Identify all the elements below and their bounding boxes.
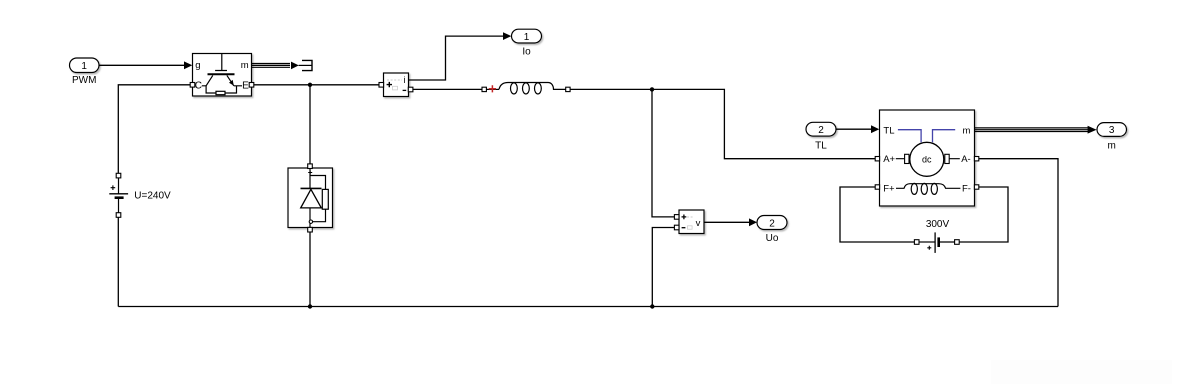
wire diode to top rail (309, 85, 311, 164)
svg-text:m: m (1108, 141, 1116, 152)
svg-text:g: g (195, 60, 200, 71)
terminator (302, 60, 312, 70)
current sensor block (384, 73, 409, 97)
machine F- port (974, 185, 978, 189)
diode top port (308, 164, 313, 169)
wire tap to voltmeter + (652, 89, 674, 216)
DC machine block (880, 110, 975, 206)
output port 2 (757, 216, 787, 230)
svg-text:TL: TL (815, 140, 827, 151)
machine blue signal lines (898, 130, 955, 143)
IGBT symbol (202, 54, 242, 95)
vector wire IGBT m to terminator (252, 62, 312, 70)
svg-text:dc: dc (922, 154, 932, 164)
wire IGBT E to current sensor (254, 84, 379, 86)
wire TL to machine (836, 125, 879, 133)
output port 1 (512, 29, 542, 43)
wire voltmeter to outport Uo (704, 218, 757, 226)
svg-text:1: 1 (524, 32, 530, 43)
svg-text:1: 1 (81, 61, 87, 72)
machine A+ port (875, 157, 879, 161)
svg-text:Io: Io (522, 46, 531, 57)
junction diode bottom (308, 304, 312, 308)
input port 1 (70, 58, 100, 73)
wire IGBT C to DC source (118, 85, 190, 173)
wire inductor to machine A+ (570, 89, 875, 158)
IGBT E port (249, 83, 254, 88)
machine A- port (974, 157, 978, 161)
diode block (288, 168, 333, 228)
watermark area bottom right (991, 360, 1172, 384)
bottom bus wire (118, 306, 1058, 308)
wire machine F+ to field source (840, 187, 914, 242)
svg-text:Uo: Uo (766, 233, 779, 244)
output port 3 (1097, 123, 1127, 137)
svg-text:F+: F+ (883, 183, 895, 194)
wire current sensor to inductor (413, 88, 482, 90)
svg-text:C: C (195, 81, 202, 92)
input port 2 (806, 122, 836, 136)
wire field source to machine F- (959, 187, 1008, 242)
svg-text:v: v (696, 218, 701, 229)
current sensor + port (379, 83, 384, 88)
vector wire machine m to outport 3 (975, 126, 1097, 134)
wire current sensor i to outport Io (409, 32, 512, 80)
machine field winding (896, 183, 960, 194)
voltage sensor - port (674, 225, 679, 230)
wire PWM to IGBT gate (99, 61, 192, 69)
svg-text:TL: TL (883, 125, 894, 136)
svg-text:m: m (241, 60, 249, 71)
IGBT C port (190, 83, 195, 88)
svg-text:2: 2 (818, 125, 824, 136)
series inductor (482, 83, 570, 95)
machine F+ port (875, 185, 879, 189)
voltage sensor + port (674, 215, 679, 220)
voltage sensor block (679, 210, 704, 234)
svg-text:A+: A+ (883, 154, 895, 165)
svg-text:300V: 300V (926, 219, 950, 230)
wire machine A- to bus (979, 159, 1058, 307)
svg-text:i: i (404, 75, 406, 85)
svg-text:m: m (963, 125, 971, 136)
svg-text:U=240V: U=240V (134, 190, 171, 201)
machine armature leads (896, 158, 960, 160)
field source 300V (914, 232, 959, 253)
diode symbol with snubber (301, 168, 329, 227)
voltage sensor internals (682, 215, 701, 230)
svg-text:A-: A- (961, 154, 971, 165)
wire diode to bus (309, 232, 311, 307)
diode bottom port (308, 227, 313, 232)
svg-text:E: E (242, 81, 249, 92)
machine brushes (905, 154, 909, 163)
IGBT block (193, 54, 252, 97)
current sensor internals (387, 75, 407, 90)
wire DC source to bottom bus (117, 217, 119, 306)
svg-text:F-: F- (962, 183, 971, 194)
wire bus to voltmeter - (652, 228, 674, 307)
current sensor - port (408, 87, 413, 92)
junction diode top (308, 83, 312, 87)
svg-text:PWM: PWM (72, 75, 96, 86)
DC voltage source U=240V (109, 173, 128, 217)
svg-text:3: 3 (1109, 125, 1115, 136)
svg-text:2: 2 (769, 218, 775, 229)
junction voltage tap (650, 87, 654, 91)
junction bus tap (650, 304, 654, 308)
machine armature circle (910, 142, 944, 176)
